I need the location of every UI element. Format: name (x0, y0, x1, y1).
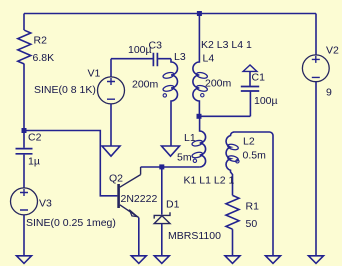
svg-text:C2: C2 (28, 132, 42, 144)
svg-text:V1: V1 (88, 68, 101, 80)
svg-text:R2: R2 (34, 35, 48, 47)
svg-text:C1: C1 (252, 72, 266, 84)
svg-text:SINE(0 0.25 1meg): SINE(0 0.25 1meg) (26, 217, 116, 229)
svg-text:V3: V3 (39, 198, 52, 210)
svg-text:L3: L3 (174, 51, 186, 63)
svg-text:6.8K: 6.8K (33, 52, 55, 64)
svg-text:L1: L1 (184, 132, 196, 144)
svg-text:C3: C3 (149, 40, 163, 52)
svg-text:R1: R1 (246, 201, 260, 213)
svg-text:200m: 200m (132, 79, 159, 91)
svg-text:Q2: Q2 (109, 173, 123, 185)
svg-text:200m: 200m (205, 78, 232, 90)
svg-text:MBRS1100: MBRS1100 (168, 230, 221, 242)
svg-text:K2 L3 L4 1: K2 L3 L4 1 (201, 39, 252, 51)
svg-text:L2: L2 (243, 136, 255, 148)
svg-text:L4: L4 (203, 53, 215, 65)
svg-text:V2: V2 (326, 45, 339, 57)
svg-text:SINE(0 8 1K): SINE(0 8 1K) (34, 84, 96, 96)
svg-text:100µ: 100µ (254, 95, 278, 107)
svg-text:9: 9 (326, 87, 332, 99)
svg-text:5m: 5m (177, 152, 192, 164)
svg-text:0.5m: 0.5m (243, 150, 267, 162)
svg-text:2N2222: 2N2222 (121, 193, 158, 205)
svg-text:50: 50 (246, 218, 258, 230)
svg-text:D1: D1 (166, 199, 180, 211)
svg-text:K1 L1 L2 1: K1 L1 L2 1 (184, 175, 235, 187)
svg-text:1µ: 1µ (28, 156, 40, 168)
